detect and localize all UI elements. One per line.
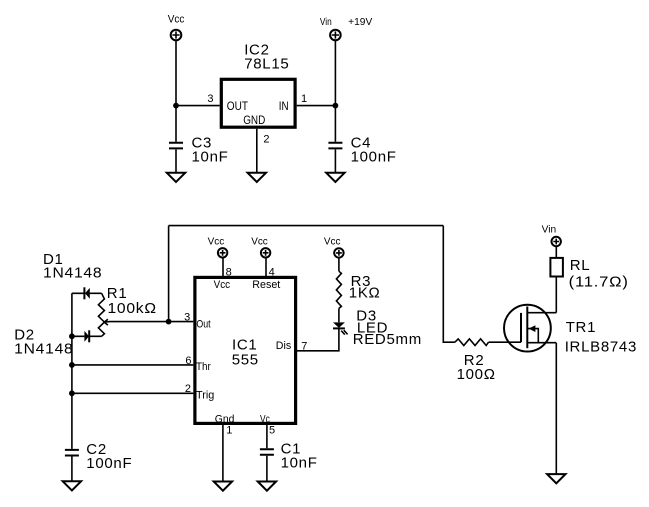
wire RL to Vin: [555, 246, 557, 258]
wire node down to C4: [334, 106, 336, 142]
svg-text:Vcc: Vcc: [324, 237, 341, 248]
diode D1 1N4148: [43, 251, 102, 299]
svg-text:Vcc: Vcc: [168, 14, 185, 26]
svg-text:Out: Out: [196, 319, 210, 331]
wire C4 to ground: [334, 149, 336, 172]
wire Trig to IC1 pin 2: [72, 392, 193, 394]
svg-text:Reset: Reset: [252, 279, 280, 291]
svg-text:10nF: 10nF: [192, 148, 229, 165]
svg-text:1KΩ: 1KΩ: [349, 284, 381, 301]
node junction dot right: [333, 103, 339, 109]
svg-text:6: 6: [185, 355, 191, 367]
svg-text:2: 2: [263, 133, 269, 145]
power symbol Vcc (R3): [324, 237, 344, 258]
svg-text:2: 2: [185, 383, 191, 395]
svg-text:1N4148: 1N4148: [14, 340, 73, 357]
wire R2 to gate: [489, 341, 522, 343]
ground (source): [547, 474, 565, 483]
svg-text:Dis: Dis: [276, 340, 292, 352]
power symbol Vin (right): [542, 225, 561, 247]
svg-text:Vin: Vin: [542, 225, 557, 236]
transistor TR1 IRLB8743: [504, 305, 637, 356]
node junction dot left: [173, 103, 179, 109]
node Out junction dot: [166, 319, 172, 325]
svg-text:78L15: 78L15: [244, 56, 289, 73]
wire Vcc to node: [175, 40, 177, 105]
capacitor C3: [169, 134, 229, 165]
svg-text:100nF: 100nF: [86, 455, 132, 472]
ground (below C2): [63, 481, 81, 490]
svg-text:(11.7Ω): (11.7Ω): [569, 274, 629, 291]
wire Vin to node: [334, 40, 336, 105]
svg-text:+19V: +19V: [348, 17, 372, 28]
IC IC1 555 timer: [195, 277, 296, 425]
wire IC2 GND pin 2: [256, 129, 258, 173]
svg-text:Vcc: Vcc: [208, 237, 225, 248]
capacitor C1: [260, 441, 318, 472]
svg-text:Thr: Thr: [196, 361, 211, 373]
wire left rail: [71, 293, 73, 449]
resistor R2 100: [455, 339, 496, 383]
wire C3 to ground: [175, 149, 177, 172]
diode D2 1N4148: [14, 327, 101, 358]
node junction dot Thr: [69, 362, 75, 368]
LED D3: [333, 307, 422, 348]
svg-text:1: 1: [301, 93, 307, 105]
svg-text:GND: GND: [243, 113, 265, 127]
svg-text:Trig: Trig: [196, 390, 214, 402]
wire rail down to Out node: [168, 226, 170, 322]
capacitor C4: [328, 134, 396, 165]
wire C1 to ground: [266, 456, 268, 482]
wire Vcc to pin 8: [222, 258, 224, 277]
ground (below C3): [167, 173, 185, 182]
svg-text:100kΩ: 100kΩ: [108, 300, 157, 317]
svg-text:100Ω: 100Ω: [457, 366, 496, 383]
ground (below C1): [258, 482, 276, 491]
power symbol Vcc (pin 8): [208, 237, 228, 258]
wire IC1 pin 5 to C1: [266, 425, 268, 448]
wire source to ground: [555, 343, 557, 474]
potentiometer R1 100k: [98, 285, 156, 337]
svg-text:RED5mm: RED5mm: [353, 331, 422, 348]
resistor RL (box symbol): [550, 257, 628, 291]
svg-text:4: 4: [269, 267, 275, 279]
power symbol Vcc (pin 4): [251, 237, 270, 258]
svg-text:OUT: OUT: [227, 99, 249, 113]
svg-text:3: 3: [184, 311, 190, 323]
ground (pin 1): [214, 482, 232, 491]
capacitor C2: [65, 441, 132, 472]
svg-text:Vin: Vin: [320, 17, 332, 28]
svg-text:1: 1: [226, 424, 232, 436]
wire C2 to ground: [71, 457, 73, 482]
wire feedback top rail: [169, 225, 444, 227]
svg-text:Vcc: Vcc: [251, 237, 268, 248]
power symbol Vin +19V: [320, 17, 373, 40]
svg-text:1N4148: 1N4148: [43, 265, 102, 282]
wire IC2 IN to right node: [297, 105, 336, 107]
wire wiper to IC1 Out pin 3: [104, 321, 193, 324]
wire drain up to RL: [555, 277, 557, 313]
svg-text:TR1: TR1: [566, 319, 596, 336]
svg-text:IN: IN: [279, 99, 289, 113]
wire rail down to gate branch: [443, 226, 455, 343]
wire node down to C3: [175, 106, 177, 142]
node junction dot Trig: [69, 390, 75, 396]
wire Vcc to pin 4: [265, 258, 267, 277]
power symbol Vcc (top left): [168, 14, 185, 41]
svg-text:555: 555: [232, 351, 259, 368]
svg-text:10nF: 10nF: [281, 455, 318, 472]
wire IC1 pin 1 to ground: [222, 425, 224, 482]
wire D3 to IC1 Dis pin 7: [297, 328, 339, 350]
svg-text:3: 3: [207, 93, 213, 105]
IC U2 regulator IC2 78L15: [221, 41, 295, 127]
wire Vcc to R3: [338, 258, 340, 272]
ground (below C4): [326, 173, 344, 182]
svg-text:8: 8: [226, 267, 232, 279]
node junction dot D2: [69, 333, 75, 339]
wire node to IC2 OUT pin 3: [176, 105, 220, 107]
svg-text:100nF: 100nF: [351, 148, 397, 165]
wire Thr to IC1 pin 6: [72, 364, 193, 366]
wire R3 to D3: [338, 308, 340, 322]
svg-text:Vcc: Vcc: [214, 279, 231, 291]
svg-text:RL: RL: [570, 257, 591, 274]
svg-text:IRLB8743: IRLB8743: [565, 339, 637, 356]
ground (below IC2): [248, 173, 266, 182]
resistor R3 1K: [336, 271, 380, 308]
svg-text:5: 5: [269, 424, 275, 436]
